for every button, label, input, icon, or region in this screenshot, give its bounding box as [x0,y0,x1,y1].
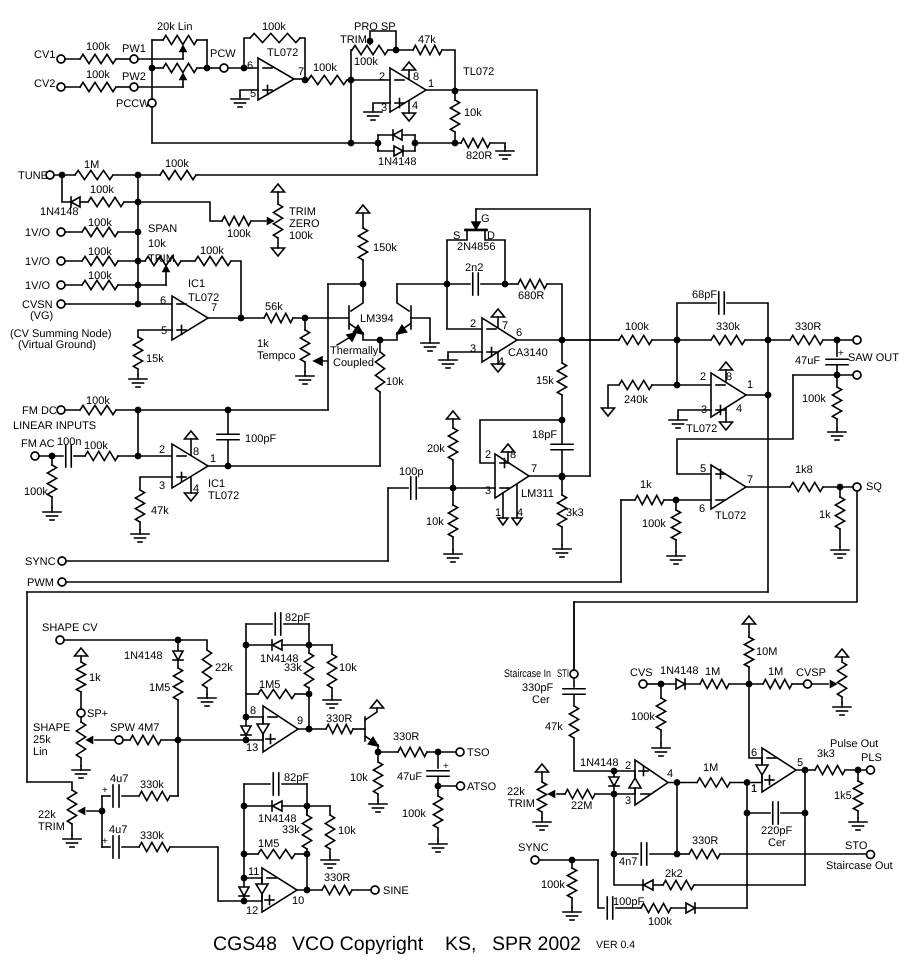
svg-text:10k: 10k [350,772,368,784]
svg-text:4: 4 [498,356,504,368]
svg-text:330k: 330k [140,830,164,842]
svg-text:10k: 10k [386,376,404,388]
svg-text:1N4148: 1N4148 [40,206,79,218]
svg-text:1k: 1k [640,479,652,491]
svg-text:100k: 100k [200,245,224,257]
svg-text:Lin: Lin [33,746,48,758]
svg-text:13: 13 [246,742,258,754]
svg-text:4: 4 [667,768,673,780]
svg-text:TL072: TL072 [188,292,219,304]
svg-text:100k: 100k [90,184,114,196]
svg-text:100k: 100k [24,486,48,498]
svg-text:8: 8 [726,371,732,383]
svg-text:3: 3 [159,480,165,492]
svg-text:TL072: TL072 [463,66,494,78]
svg-text:22k: 22k [215,662,233,674]
svg-text:330R: 330R [393,731,419,743]
svg-text:PLS: PLS [861,752,882,764]
svg-text:7: 7 [531,463,537,475]
svg-text:3k3: 3k3 [817,748,835,760]
svg-text:VCO Copyright: VCO Copyright [292,933,424,955]
svg-text:9: 9 [297,715,303,727]
svg-text:TL072: TL072 [267,47,298,59]
svg-text:4: 4 [412,100,418,112]
svg-text:SAW OUT: SAW OUT [848,352,899,364]
svg-text:1N4148: 1N4148 [378,156,417,168]
svg-text:1V/O: 1V/O [25,227,51,239]
svg-text:SPW: SPW [110,722,136,734]
svg-text:TRIM: TRIM [38,821,65,833]
svg-text:3: 3 [625,795,631,807]
svg-text:6: 6 [247,60,253,72]
svg-text:10k: 10k [148,238,166,250]
svg-text:1k5: 1k5 [834,790,852,802]
svg-text:SPR 2002: SPR 2002 [492,933,581,955]
svg-text:2: 2 [485,449,491,461]
svg-text:10: 10 [292,895,304,907]
svg-text:4: 4 [193,483,199,495]
svg-text:4M7: 4M7 [138,722,159,734]
svg-text:100k: 100k [88,217,112,229]
svg-text:3: 3 [470,343,476,355]
svg-text:1N4148: 1N4148 [580,757,619,769]
svg-text:22M: 22M [571,800,592,812]
svg-text:TL072: TL072 [208,490,239,502]
svg-text:1M: 1M [768,666,783,678]
svg-text:Thermally: Thermally [330,345,379,357]
svg-text:33k: 33k [284,662,302,674]
svg-text:56k: 56k [265,301,283,313]
svg-text:22k: 22k [507,786,525,798]
svg-text:680R: 680R [518,290,544,302]
svg-text:7: 7 [747,474,753,486]
svg-text:G: G [481,213,490,225]
svg-text:1k: 1k [257,338,269,350]
svg-text:IC1: IC1 [188,278,205,290]
svg-text:2: 2 [470,318,476,330]
svg-text:SHAPE CV: SHAPE CV [42,622,98,634]
svg-text:100k: 100k [88,270,112,282]
svg-text:+: + [102,836,108,847]
svg-text:47uF: 47uF [795,355,820,367]
svg-text:100k: 100k [625,321,649,333]
svg-text:STO: STO [845,840,868,852]
svg-text:LINEAR INPUTS: LINEAR INPUTS [13,420,96,432]
svg-text:2N4856: 2N4856 [457,241,496,253]
svg-text:PW1: PW1 [122,43,146,55]
svg-text:CV2: CV2 [34,78,55,90]
svg-text:1V/O: 1V/O [25,256,51,268]
svg-text:1N4148: 1N4148 [660,665,699,677]
svg-text:1: 1 [495,507,501,519]
svg-text:6: 6 [751,747,757,759]
svg-text:CVSP: CVSP [796,667,826,679]
svg-text:100k: 100k [88,246,112,258]
svg-text:100k: 100k [165,158,189,170]
svg-text:8: 8 [510,449,516,461]
svg-text:CA3140: CA3140 [508,347,548,359]
svg-text:FM DC: FM DC [22,405,57,417]
svg-text:1M5: 1M5 [149,682,170,694]
svg-text:LM311: LM311 [521,488,554,500]
svg-text:5: 5 [797,757,803,769]
svg-text:+: + [443,761,449,772]
svg-text:4: 4 [736,403,742,415]
svg-text:100p: 100p [399,466,423,478]
svg-text:IC1: IC1 [208,478,225,490]
svg-text:6: 6 [516,327,522,339]
svg-text:47k: 47k [545,721,563,733]
svg-text:220pF: 220pF [761,825,792,837]
svg-text:82pF: 82pF [284,772,309,784]
svg-text:8: 8 [193,446,199,458]
svg-text:12: 12 [246,905,258,917]
svg-text:1: 1 [747,379,753,391]
svg-text:1M5: 1M5 [259,679,280,691]
svg-text:Tempco: Tempco [257,350,296,362]
svg-text:SINE: SINE [383,885,409,897]
svg-text:100pF: 100pF [245,433,276,445]
svg-text:STI: STI [557,668,569,680]
svg-text:KS,: KS, [445,933,476,955]
svg-text:TUNE: TUNE [18,170,48,182]
svg-text:1M: 1M [705,666,720,678]
svg-text:100k: 100k [631,711,655,723]
svg-text:Cer: Cer [768,837,786,849]
svg-text:TRIM: TRIM [289,206,316,218]
svg-text:TSO: TSO [467,747,490,759]
svg-text:VER 0.4: VER 0.4 [596,939,635,951]
svg-text:2: 2 [159,444,165,456]
svg-text:PCCW: PCCW [116,98,150,110]
svg-text:PW2: PW2 [122,71,146,83]
svg-text:8: 8 [250,705,256,717]
svg-text:10k: 10k [338,825,356,837]
svg-text:18pF: 18pF [532,429,557,441]
svg-text:1M: 1M [703,762,718,774]
svg-text:1V/O: 1V/O [25,280,51,292]
svg-text:Pulse Out: Pulse Out [830,738,878,750]
svg-text:20k: 20k [427,443,445,455]
svg-text:CGS48: CGS48 [213,933,277,955]
svg-text:ZERO: ZERO [289,218,320,230]
svg-text:1k: 1k [819,509,831,521]
svg-text:47uF: 47uF [397,771,422,783]
svg-text:100pF: 100pF [613,896,644,908]
svg-text:330R: 330R [326,713,352,725]
svg-text:SYNC: SYNC [518,842,549,854]
svg-text:7: 7 [502,320,508,332]
svg-text:100k: 100k [84,440,108,452]
svg-text:4u7: 4u7 [109,824,127,836]
svg-text:15k: 15k [536,375,554,387]
svg-text:(Virtual Ground): (Virtual Ground) [18,339,96,351]
svg-text:+: + [838,348,844,359]
svg-text:TRIM: TRIM [508,798,535,810]
svg-text:100k: 100k [289,230,313,242]
svg-text:2: 2 [700,371,706,383]
svg-text:240k: 240k [624,394,648,406]
svg-text:2n2: 2n2 [465,262,483,274]
svg-text:10k: 10k [464,107,482,119]
svg-text:1k: 1k [89,672,101,684]
svg-text:4: 4 [517,507,523,519]
svg-text:22k: 22k [38,809,56,821]
svg-text:1: 1 [428,78,434,90]
svg-text:2: 2 [625,760,631,772]
svg-text:330k: 330k [716,321,740,333]
svg-text:4n7: 4n7 [619,856,637,868]
svg-text:100k: 100k [86,69,110,81]
svg-text:100k: 100k [541,879,565,891]
svg-text:25k: 25k [33,734,51,746]
svg-text:SHAPE: SHAPE [33,722,70,734]
svg-text:FM AC: FM AC [21,438,55,450]
svg-text:+: + [102,785,108,796]
svg-text:6: 6 [699,503,705,515]
svg-text:150k: 150k [373,242,397,254]
svg-text:1M: 1M [84,159,99,171]
svg-text:100k: 100k [402,808,426,820]
svg-text:100k: 100k [86,41,110,53]
svg-text:TL072: TL072 [686,423,717,435]
svg-text:68pF: 68pF [692,289,717,301]
svg-text:TL072: TL072 [715,510,746,522]
svg-text:11: 11 [248,866,259,878]
svg-text:6: 6 [160,295,166,307]
svg-text:330R: 330R [692,835,718,847]
svg-text:1N4148: 1N4148 [124,650,163,662]
svg-text:1: 1 [751,783,757,795]
svg-text:(VG): (VG) [30,310,53,322]
svg-text:SP+: SP+ [87,708,108,720]
svg-text:5: 5 [250,88,256,100]
svg-text:CVS: CVS [630,667,653,679]
svg-text:2k2: 2k2 [665,868,683,880]
svg-text:15k: 15k [146,353,164,365]
svg-text:47k: 47k [151,505,169,517]
svg-text:100k: 100k [86,395,110,407]
svg-text:2: 2 [379,71,385,83]
svg-text:330pF: 330pF [522,682,553,694]
svg-text:3: 3 [381,102,387,114]
svg-text:33k: 33k [282,824,300,836]
svg-text:100n: 100n [57,436,81,448]
svg-text:5: 5 [700,463,706,475]
svg-text:PRO SP: PRO SP [354,21,396,33]
svg-text:10k: 10k [426,516,444,528]
svg-text:10M: 10M [756,646,777,658]
svg-text:TRIM: TRIM [148,253,175,265]
svg-text:3: 3 [701,404,707,416]
svg-text:SQ: SQ [866,481,882,493]
svg-text:4u7: 4u7 [110,773,128,785]
svg-text:82pF: 82pF [285,612,310,624]
svg-text:3k3: 3k3 [566,507,584,519]
svg-text:Staircase In: Staircase In [504,668,551,680]
svg-text:PWM: PWM [27,577,54,589]
svg-text:47k: 47k [418,34,436,46]
svg-text:Coupled: Coupled [333,357,374,369]
svg-text:100k: 100k [227,228,251,240]
svg-text:100k: 100k [354,56,378,68]
svg-text:10k: 10k [339,662,357,674]
svg-text:SYNC: SYNC [25,556,56,568]
svg-text:100k: 100k [262,21,286,33]
svg-text:Cer: Cer [532,694,550,706]
svg-text:8: 8 [413,71,419,83]
svg-text:330R: 330R [795,321,821,333]
svg-text:100k: 100k [648,916,672,928]
svg-text:100k: 100k [642,518,666,530]
svg-text:ATSO: ATSO [467,781,497,793]
svg-text:330R: 330R [324,872,350,884]
svg-text:3: 3 [485,485,491,497]
svg-text:100k: 100k [802,393,826,405]
svg-text:1k8: 1k8 [795,464,813,476]
svg-text:Staircase Out: Staircase Out [826,860,893,872]
svg-text:CV1: CV1 [34,49,55,61]
svg-text:100k: 100k [313,62,337,74]
svg-text:7: 7 [298,66,304,78]
svg-text:1M5: 1M5 [258,838,279,850]
svg-text:1: 1 [210,453,216,465]
svg-text:5: 5 [161,325,167,337]
svg-text:SPAN: SPAN [148,223,177,235]
svg-text:20k Lin: 20k Lin [157,21,192,33]
svg-text:820R: 820R [466,150,492,162]
svg-text:330k: 330k [140,779,164,791]
svg-text:TRIM: TRIM [340,34,367,46]
svg-text:PCW: PCW [210,48,236,60]
svg-text:LM394: LM394 [360,313,394,325]
